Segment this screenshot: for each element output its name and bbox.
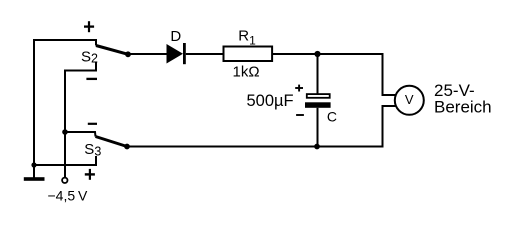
switch S2 pole dot	[125, 51, 131, 57]
wire: plus rail from ground junction up and across to S2 upper contact	[34, 40, 96, 165]
wire: right vertical lower with meter stub	[383, 106, 397, 148]
switch S2 arm	[96, 46, 128, 55]
wire: bottom run from S3 pole to bottom-right corner	[127, 146, 383, 148]
label - (S2 lower contact)	[86, 78, 97, 80]
node: capacitor top junction dot	[314, 51, 320, 57]
wire: top run from S2 pole to diode anode	[128, 53, 167, 55]
wire: plus rail bottom run to S3 lower contact	[34, 156, 96, 165]
label + (S2 upper contact)	[84, 21, 94, 32]
svg-text:1kΩ: 1kΩ	[233, 64, 260, 81]
svg-text:−4,5 V: −4,5 V	[48, 188, 88, 204]
wire: capacitor branch lower lead	[317, 108, 319, 147]
voltmeter V	[395, 86, 424, 115]
node: minus-rail junction dot	[62, 129, 68, 135]
ground	[24, 165, 45, 181]
svg-text:S2: S2	[81, 48, 98, 65]
svg-text:Bereich: Bereich	[434, 98, 492, 117]
node: capacitor bottom junction dot	[314, 144, 320, 150]
wire: capacitor branch upper lead	[317, 54, 319, 94]
switch S3 arm	[96, 137, 128, 147]
label - (S3 upper contact)	[88, 123, 97, 125]
svg-text:D: D	[170, 28, 181, 45]
capacitor C (electrolytic, polarized)	[247, 85, 337, 125]
node: plus-rail junction dot	[31, 162, 36, 167]
resistor R1	[224, 27, 273, 80]
switch S3 pole dot	[124, 144, 130, 150]
diode D	[167, 28, 186, 64]
wire: minus rail branch to S3 upper contact	[65, 132, 96, 137]
label + (S3 lower contact)	[85, 169, 95, 180]
svg-text:V: V	[405, 92, 414, 107]
svg-text:500µF: 500µF	[247, 92, 294, 110]
wire: resistor to top-right corner	[272, 53, 382, 55]
wire: diode cathode to resistor	[186, 53, 224, 55]
wire: minus rail from S2 lower contact down to battery terminal	[65, 62, 96, 177]
wire: right vertical upper with meter stub	[383, 53, 397, 95]
battery terminal -4,5 V	[62, 178, 67, 183]
svg-text:C: C	[327, 109, 337, 125]
